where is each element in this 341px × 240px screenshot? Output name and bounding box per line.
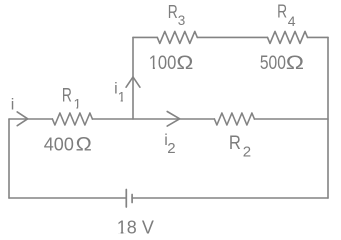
svg-text:18 V: 18 V: [117, 217, 154, 237]
svg-text:Ω: Ω: [76, 135, 92, 156]
battery long plate: [125, 190, 127, 208]
wire right vertical: [327, 37, 329, 198]
svg-text:Ω: Ω: [176, 53, 193, 74]
wire middle: R2 to right edge: [254, 118, 328, 120]
wire middle: left edge to R1: [9, 118, 52, 120]
wire top: R3 to R4: [197, 36, 267, 38]
wire inner vertical branch: [132, 37, 134, 119]
wire middle: R1 to R2: [92, 118, 214, 120]
svg-text:500: 500: [260, 53, 286, 74]
svg-text:R: R: [277, 1, 287, 22]
svg-text:2: 2: [167, 140, 175, 157]
svg-text:400: 400: [44, 135, 74, 155]
wire top: left corner to R3: [133, 36, 157, 38]
svg-text:R: R: [62, 86, 72, 107]
svg-text:100: 100: [149, 53, 177, 74]
wire bottom right segment: [132, 197, 328, 199]
svg-text:2: 2: [243, 143, 251, 160]
current arrow i2: [167, 112, 180, 127]
svg-text:R: R: [168, 1, 178, 22]
svg-text:Ω: Ω: [286, 53, 304, 74]
svg-text:R: R: [229, 132, 241, 154]
battery short plate: [131, 195, 133, 203]
current arrow i: [17, 112, 28, 126]
resistor R2: [214, 113, 254, 125]
resistor R1: [52, 113, 92, 125]
resistor R4: [268, 31, 308, 43]
svg-text:i: i: [11, 96, 15, 113]
wire bottom left segment: [9, 197, 126, 199]
svg-text:4: 4: [288, 13, 296, 29]
current arrow i1: [126, 77, 140, 87]
wire left vertical: [8, 119, 10, 198]
wire top: R4 to right corner: [308, 36, 329, 38]
svg-text:3: 3: [178, 13, 186, 28]
resistor R3: [157, 31, 197, 43]
